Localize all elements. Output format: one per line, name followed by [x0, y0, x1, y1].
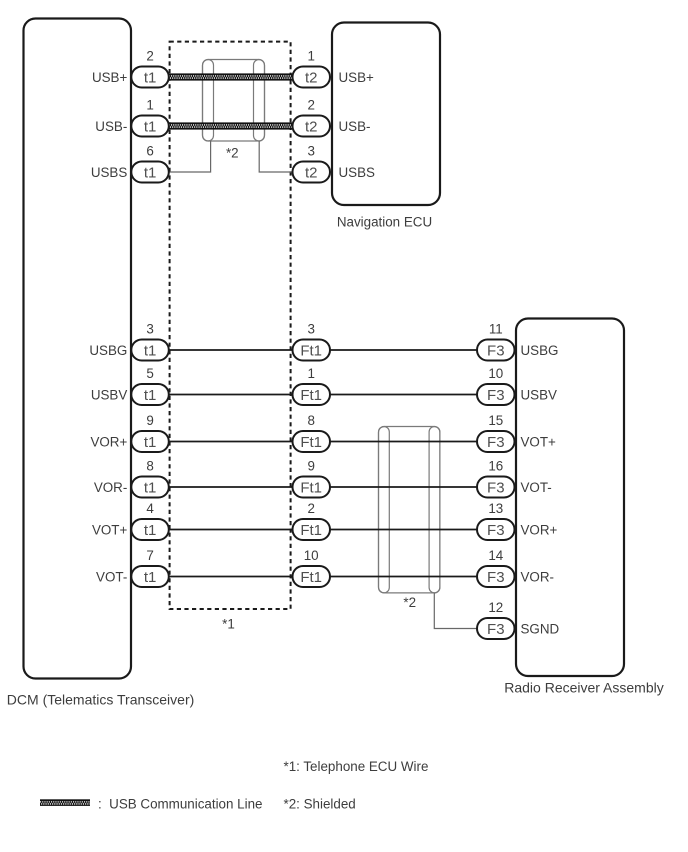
svg-text:*2: *2	[403, 595, 416, 610]
svg-text:Ft1: Ft1	[300, 522, 322, 539]
svg-text:F3: F3	[487, 434, 505, 451]
svg-text:16: 16	[488, 459, 503, 474]
svg-text:9: 9	[146, 413, 153, 428]
svg-text:2: 2	[307, 98, 314, 113]
svg-text:10: 10	[304, 548, 319, 563]
svg-text:Ft1: Ft1	[300, 387, 322, 404]
svg-text:USB+: USB+	[92, 70, 128, 85]
svg-text:7: 7	[146, 548, 153, 563]
svg-text:5: 5	[146, 366, 153, 381]
svg-text:14: 14	[488, 548, 503, 563]
svg-text:3: 3	[146, 322, 153, 337]
svg-text:t1: t1	[144, 522, 157, 539]
svg-text:12: 12	[488, 600, 503, 615]
svg-text:1: 1	[307, 366, 314, 381]
svg-text:*2: *2	[226, 145, 239, 160]
svg-text:8: 8	[307, 413, 314, 428]
svg-text:: USB Communication Line: : USB Communication Line	[98, 797, 262, 812]
svg-text:VOR-: VOR-	[521, 569, 554, 584]
svg-text:VOR-: VOR-	[94, 480, 127, 495]
svg-text:VOR+: VOR+	[521, 522, 558, 537]
svg-text:9: 9	[307, 459, 314, 474]
svg-text:Ft1: Ft1	[300, 342, 322, 359]
svg-text:SGND: SGND	[521, 621, 560, 636]
svg-text:USBS: USBS	[91, 165, 128, 180]
svg-text:USB-: USB-	[339, 119, 371, 134]
svg-text:Navigation ECU: Navigation ECU	[337, 215, 432, 230]
svg-text:VOT+: VOT+	[92, 522, 128, 537]
svg-text:VOT+: VOT+	[521, 434, 557, 449]
svg-text:6: 6	[146, 144, 153, 159]
svg-text:13: 13	[488, 501, 503, 516]
svg-text:F3: F3	[487, 522, 505, 539]
svg-text:F3: F3	[487, 342, 505, 359]
svg-text:Radio Receiver Assembly: Radio Receiver Assembly	[504, 680, 664, 696]
svg-text:3: 3	[307, 144, 314, 159]
svg-text:USBV: USBV	[91, 387, 128, 402]
svg-text:3: 3	[307, 322, 314, 337]
svg-text:F3: F3	[487, 387, 505, 404]
svg-text:VOR+: VOR+	[90, 434, 127, 449]
svg-text:USBV: USBV	[521, 387, 558, 402]
svg-text:t2: t2	[305, 118, 318, 135]
svg-text:*1: Telephone ECU Wire: *1: Telephone ECU Wire	[284, 759, 429, 774]
svg-text:1: 1	[307, 49, 314, 64]
svg-text:t1: t1	[144, 569, 157, 586]
svg-text:10: 10	[488, 366, 503, 381]
svg-text:1: 1	[146, 98, 153, 113]
svg-text:USB+: USB+	[339, 70, 375, 85]
svg-text:t1: t1	[144, 118, 157, 135]
svg-text:Ft1: Ft1	[300, 434, 322, 451]
svg-text:t1: t1	[144, 434, 157, 451]
svg-text:t1: t1	[144, 479, 157, 496]
svg-text:2: 2	[307, 501, 314, 516]
svg-text:t1: t1	[144, 342, 157, 359]
svg-text:t2: t2	[305, 164, 318, 181]
svg-text:F3: F3	[487, 569, 505, 586]
svg-text:DCM (Telematics Transceiver): DCM (Telematics Transceiver)	[7, 692, 194, 708]
svg-text:Ft1: Ft1	[300, 569, 322, 586]
svg-text:Ft1: Ft1	[300, 479, 322, 496]
svg-text:USBS: USBS	[339, 165, 376, 180]
svg-text:4: 4	[146, 501, 154, 516]
svg-text:F3: F3	[487, 479, 505, 496]
svg-text:2: 2	[146, 49, 153, 64]
svg-text:*1: *1	[222, 616, 235, 631]
svg-text:11: 11	[489, 322, 503, 337]
svg-text:t1: t1	[144, 69, 157, 86]
svg-text:15: 15	[488, 413, 503, 428]
svg-text:t1: t1	[144, 164, 157, 181]
svg-text:USBG: USBG	[89, 343, 127, 358]
svg-text:t2: t2	[305, 69, 318, 86]
svg-text:VOT-: VOT-	[96, 569, 127, 584]
svg-text:VOT-: VOT-	[521, 480, 552, 495]
svg-text:F3: F3	[487, 621, 505, 638]
svg-text:USB-: USB-	[95, 119, 127, 134]
svg-text:USBG: USBG	[521, 343, 559, 358]
svg-text:*2: Shielded: *2: Shielded	[284, 797, 356, 812]
svg-text:8: 8	[146, 459, 153, 474]
svg-text:t1: t1	[144, 387, 157, 404]
